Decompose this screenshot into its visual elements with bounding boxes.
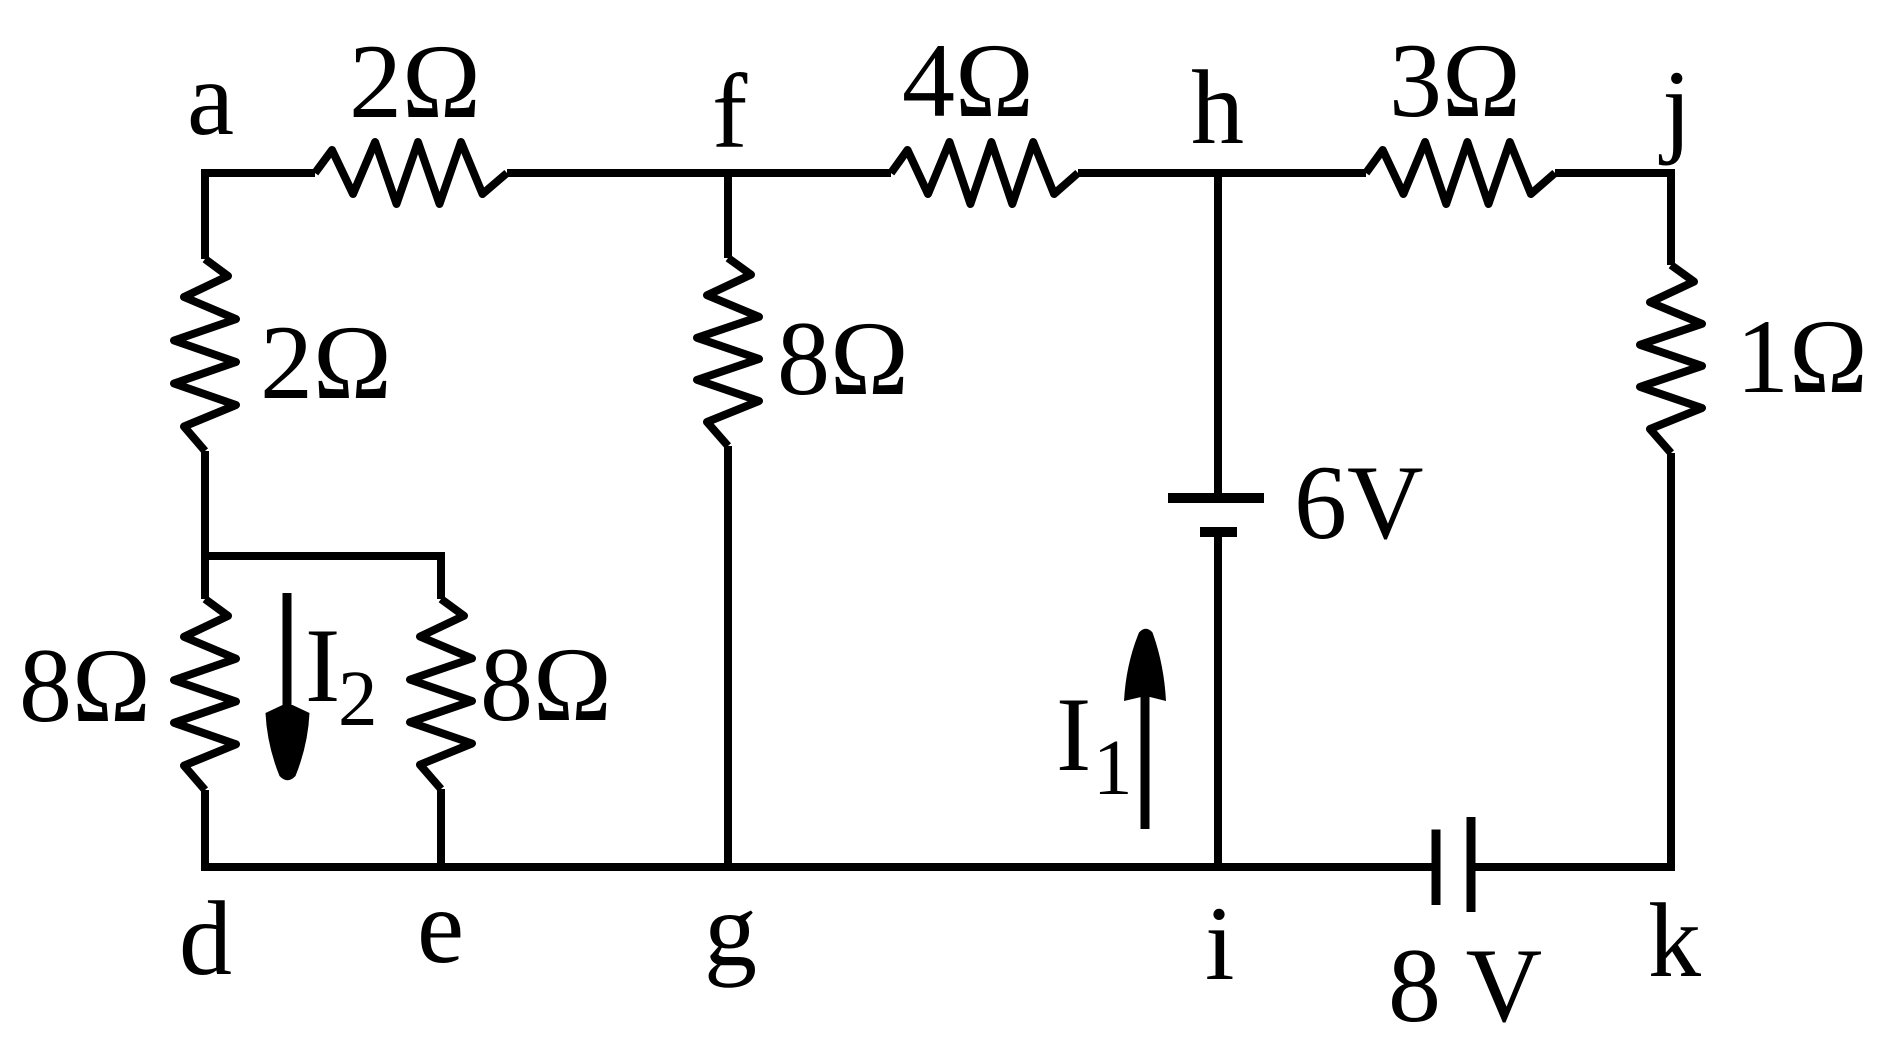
- wire e column bottom (8ohm to bottom rail node e): [437, 789, 445, 867]
- svg-text:6V: 6V: [1294, 444, 1424, 561]
- svg-text:i: i: [1205, 885, 1234, 1002]
- current arrow I2 head: [266, 705, 310, 780]
- resistor R6 8ohm (left column junction-d): [174, 599, 236, 790]
- resistor R1 2ohm (top rail a-f): [315, 142, 507, 204]
- svg-text:a: a: [187, 40, 234, 157]
- wire a corner: node a down-column top, to 2ohm left lead: [205, 173, 315, 259]
- wire inner loop top: junction to e-branch corner: [205, 556, 441, 599]
- resistor R3 3ohm (top rail h-j): [1366, 142, 1555, 204]
- wire i column (6V battery bottom plate to bottom rail node i): [1214, 532, 1222, 867]
- svg-text:e: e: [417, 868, 464, 985]
- resistor R4 2ohm (left column below a): [174, 259, 236, 451]
- svg-text:j: j: [1658, 49, 1691, 166]
- svg-text:I: I: [305, 607, 340, 724]
- svg-text:k: k: [1648, 882, 1701, 999]
- battery B1 6V long (top) plate: [1168, 493, 1264, 503]
- battery B2 8V short (left) plate: [1432, 830, 1441, 906]
- battery B1 6V short (bottom) plate: [1200, 527, 1237, 537]
- battery B2 8V long (right) plate: [1467, 817, 1476, 912]
- svg-text:2: 2: [338, 656, 378, 743]
- svg-text:h: h: [1191, 49, 1244, 166]
- svg-text:1Ω: 1Ω: [1736, 298, 1868, 415]
- svg-text:2Ω: 2Ω: [260, 304, 392, 421]
- svg-text:8Ω: 8Ω: [19, 627, 151, 744]
- svg-text:d: d: [179, 880, 232, 997]
- svg-text:8 V: 8 V: [1388, 927, 1542, 1044]
- svg-text:8Ω: 8Ω: [480, 626, 612, 743]
- svg-text:1: 1: [1093, 725, 1133, 812]
- wire f stub from top rail to 8ohm: [724, 173, 732, 258]
- current arrow I1 head: [1124, 629, 1166, 701]
- svg-text:2Ω: 2Ω: [349, 23, 481, 140]
- current arrow I2 shaft (downward, inside inner loop): [283, 593, 292, 755]
- wire h column (node h down to 6V battery top plate): [1214, 173, 1222, 498]
- current arrow I1 shaft (upward, left of i column): [1141, 660, 1150, 829]
- wire left column between 2ohm and 8ohm through junction node: [201, 451, 209, 599]
- svg-text:g: g: [704, 871, 757, 988]
- wire g column (8ohm bottom to bottom rail node g): [724, 446, 732, 867]
- wire d corner and bottom rail to 8V battery negative plate: [205, 790, 1436, 867]
- resistor R8 1ohm (j-k column): [1640, 265, 1702, 453]
- wire top rail h segment (4ohm to 3ohm through node h): [1078, 169, 1366, 177]
- svg-text:8Ω: 8Ω: [777, 300, 909, 417]
- wire top rail f segment (2ohm to 4ohm through node f): [507, 169, 891, 177]
- svg-text:4Ω: 4Ω: [902, 22, 1034, 139]
- wire k corner: 8V battery positive plate to node k, up to 1ohm: [1471, 453, 1671, 867]
- svg-text:I: I: [1056, 676, 1091, 793]
- resistor R5 8ohm (f-g column): [697, 258, 759, 446]
- wire j corner: 3ohm right lead to node j, down to 1ohm: [1555, 173, 1671, 265]
- resistor R2 4ohm (top rail f-h): [891, 142, 1078, 204]
- svg-text:3Ω: 3Ω: [1389, 22, 1521, 139]
- resistor R7 8ohm (e branch): [410, 599, 472, 789]
- svg-text:f: f: [712, 53, 748, 170]
